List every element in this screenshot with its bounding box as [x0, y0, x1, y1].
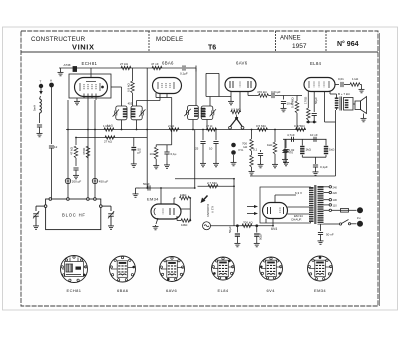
IFT1 tank2 loop [131, 106, 142, 120]
OT primary coil [335, 98, 339, 109]
svg-text:0,1µF: 0,1µF [180, 72, 188, 76]
small coupling cap on rail [73, 67, 77, 72]
svg-text:1957: 1957 [292, 43, 307, 50]
resistor 700k tall [251, 130, 253, 140]
primary winding [309, 187, 314, 222]
tuner box [46, 199, 101, 230]
bottom tie line [302, 156, 326, 158]
svg-text:470 kΩ: 470 kΩ [257, 90, 267, 94]
choke b [325, 139, 327, 145]
resistor 1M on bus [104, 128, 114, 132]
tube socket 6V4 [260, 257, 283, 280]
svg-text:1MΩ: 1MΩ [181, 223, 188, 227]
resistor 27k on AGC [105, 136, 115, 140]
screen wire to B+ [324, 91, 326, 122]
wire x95 down [94, 100, 96, 198]
svg-text:0,1: 0,1 [253, 148, 258, 152]
vertical x194.75 [194, 130, 196, 189]
grid return line [175, 178, 234, 180]
svg-text:EM34: EM34 [314, 288, 326, 293]
svg-text:ECH81: ECH81 [67, 288, 82, 293]
tube 6AV6 envelope [225, 78, 256, 92]
ECH81 electrodes [80, 82, 104, 92]
tube 6BA6 envelope [153, 78, 182, 94]
svg-text:1 MΩ: 1 MΩ [103, 124, 111, 128]
resistor 700 filter [242, 224, 252, 228]
svg-text:50µF: 50µF [259, 233, 263, 240]
OT B+ drop [335, 110, 337, 176]
PU jack circles [232, 143, 236, 147]
resistor 47 on bus [207, 128, 217, 132]
right CV wire [102, 205, 111, 207]
svg-text:2 kΩ: 2 kΩ [168, 124, 175, 128]
6AV6 electrodes [230, 81, 251, 88]
AVC bus line [66, 129, 306, 131]
svg-text:0,5 MΩ: 0,5 MΩ [231, 108, 242, 112]
cap 0.1 to gnd [260, 150, 262, 152]
vertical x234 [233, 179, 235, 226]
svg-text:110: 110 [333, 203, 338, 207]
ground [37, 132, 43, 137]
IFT1 feed wires [121, 87, 123, 106]
IFT1 tank2 coil [131, 108, 135, 117]
OT secondary box [344, 98, 354, 111]
svg-text:6V4: 6V4 [267, 288, 276, 293]
resistor 27k top rail [121, 66, 131, 70]
6V4 anode wires [288, 206, 310, 208]
ground under box [76, 98, 78, 100]
terminal right [100, 205, 103, 208]
wire coil to cap [39, 113, 41, 123]
left CV [33, 211, 39, 218]
speaker ground [363, 114, 365, 118]
svg-text:0,47MΩ: 0,47MΩ [294, 124, 305, 128]
svg-text:1MΩ: 1MΩ [180, 193, 187, 197]
svg-text:µF: µF [138, 151, 142, 155]
EM34 electrodes [154, 208, 174, 215]
taps [324, 186, 330, 188]
svg-text:50 nF: 50 nF [326, 233, 334, 237]
cap 50nF inline [148, 185, 150, 190]
svg-text:50nF: 50nF [143, 182, 150, 186]
diode load wire [248, 95, 254, 97]
antenna coil L1 [40, 99, 42, 113]
resistor 1M top [174, 197, 176, 199]
svg-text:27 kΩ: 27 kΩ [120, 62, 129, 66]
svg-text:6,8 kΩ: 6,8 kΩ [127, 82, 131, 92]
svg-text:T: T [40, 80, 42, 84]
wire x147 rail to bus [146, 68, 148, 188]
svg-text:EL84: EL84 [218, 288, 229, 293]
AGC line y137 [76, 137, 147, 139]
tube ECH81 envelope [75, 78, 108, 97]
svg-text:700 kΩ: 700 kΩ [243, 221, 253, 225]
heater arrow a [247, 206, 255, 208]
AVC drop wire [206, 120, 208, 130]
svg-text:6BA6: 6BA6 [117, 288, 129, 293]
IFT1 tank1 trimmer [113, 109, 119, 116]
pot contact b [241, 126, 244, 129]
tube socket 6BA6 [110, 256, 136, 282]
cap 0.1 to gnd [315, 157, 317, 164]
filter line [234, 225, 273, 227]
IFT2 leads [192, 120, 194, 130]
svg-text:100: 100 [150, 152, 155, 156]
pot element [231, 110, 241, 114]
cap 10uF to gnd [215, 130, 217, 141]
svg-text:5mH: 5mH [33, 105, 37, 111]
svg-text:10 nF: 10 nF [310, 133, 318, 137]
plate lead to tone [335, 84, 339, 86]
svg-text:200 µF: 200 µF [72, 180, 82, 184]
svg-text:470: 470 [288, 151, 293, 155]
svg-text:220: 220 [333, 191, 338, 195]
EL84 electrodes [309, 81, 329, 88]
grid cap lead up [90, 68, 92, 78]
svg-text:6,3 V: 6,3 V [295, 191, 302, 195]
IFT2 coil a [194, 108, 198, 117]
tube EM34 envelope [151, 204, 181, 219]
svg-text:0,5 MΩ: 0,5 MΩ [256, 124, 267, 128]
junction bar [195, 66, 197, 72]
resistor 6.8k vertical [132, 68, 134, 81]
cathode cap [313, 92, 315, 113]
svg-text:0,1µF: 0,1µF [320, 165, 328, 169]
grid feed line [139, 187, 195, 189]
terminal A [50, 83, 54, 87]
left CV wire [36, 205, 44, 207]
tie vertical [189, 198, 191, 221]
fuse line [332, 209, 341, 211]
svg-text:240: 240 [333, 185, 338, 189]
secondary winding [318, 186, 324, 225]
6V4 cathode wire up [274, 195, 276, 203]
svg-text:1kΩ: 1kΩ [306, 148, 312, 152]
svg-text:170Ω: 170Ω [304, 96, 308, 104]
svg-text:470Ω: 470Ω [82, 147, 86, 155]
ecap 50uF drop [133, 138, 135, 147]
svg-text:27 kΩ: 27 kΩ [104, 140, 113, 144]
diode ground [230, 92, 232, 101]
svg-text:ANNEE: ANNEE [280, 36, 301, 42]
svg-text:50µF: 50µF [314, 97, 318, 104]
6V4 cathode drop [272, 219, 274, 226]
resistor 0.5M on bus [258, 128, 268, 132]
6BA6 pin leads [155, 93, 157, 98]
wire pin to tuner x68 [67, 100, 69, 198]
resistor 0.47M on bus [296, 128, 306, 132]
svg-text:N° 964: N° 964 [337, 40, 359, 48]
tube 6V4 envelope [263, 203, 288, 219]
svg-text:A: A [50, 79, 52, 83]
heater arrow b [247, 213, 255, 215]
tube pin leads [83, 94, 85, 99]
pot contact a [229, 126, 232, 129]
mains terminal b [357, 221, 362, 226]
cathode resistor [307, 92, 309, 109]
cap under 47k [73, 168, 78, 170]
schematic border frame [21, 31, 378, 306]
dial lamp [203, 222, 235, 230]
gnd left with cap [284, 139, 286, 150]
ground stub on rail [60, 68, 62, 71]
svg-text:1kΩ: 1kΩ [329, 148, 335, 152]
svg-text:25: 25 [195, 147, 199, 151]
IFT3 loop [201, 106, 213, 120]
wire A down to tuner [51, 87, 53, 144]
oscillator box around ECH81 [69, 74, 111, 98]
svg-text:12: 12 [54, 145, 58, 149]
svg-text:T6: T6 [208, 45, 216, 52]
wire down to IFT2 [195, 68, 197, 106]
cathode tie [306, 121, 317, 123]
svg-text:B + 7 kΩ: B + 7 kΩ [338, 92, 350, 96]
resistor 1M bottom [181, 219, 191, 223]
svg-text:10: 10 [209, 147, 213, 151]
svg-text:0,1µ: 0,1µ [171, 152, 177, 156]
EL84 grid line [297, 95, 302, 97]
heater wiring box [260, 187, 311, 223]
target leads right [181, 208, 190, 210]
tube socket EL84 [212, 257, 235, 280]
dial lamp arrow [201, 198, 206, 204]
svg-text:MODELE: MODELE [156, 36, 183, 43]
detector loop wires [205, 73, 207, 96]
pot wiper arms [230, 119, 236, 127]
grid leak [296, 96, 298, 102]
plate lead right [111, 86, 122, 88]
resistor 470 vertical on x88 [86, 146, 90, 158]
cap 0.1 branch [166, 145, 168, 152]
mains terminal a [357, 208, 362, 213]
tube socket EM34 [308, 256, 333, 281]
feed line y139 [283, 138, 327, 140]
cap 10nF [314, 137, 316, 142]
choke a [301, 139, 303, 145]
cap 10nF down [283, 96, 285, 100]
capacitor C-ant [37, 125, 42, 127]
IFT2 loop [188, 106, 199, 120]
cathode gnd [156, 218, 158, 224]
svg-text:AT46: AT46 [63, 63, 71, 67]
svg-text:47 kΩ: 47 kΩ [70, 146, 74, 155]
svg-text:Fu: Fu [357, 216, 361, 220]
svg-text:CADRAN: CADRAN [206, 204, 210, 217]
cap 0.02 to gnd [285, 140, 287, 149]
svg-text:2,7 MΩ: 2,7 MΩ [207, 181, 218, 185]
svg-text:BLOC HF: BLOC HF [62, 213, 86, 218]
svg-text:1 kΩ: 1 kΩ [352, 77, 359, 81]
filter cap a [236, 226, 238, 233]
IFT1 tank1 loop [116, 106, 127, 120]
resistor 470k [259, 94, 269, 98]
6BA6 grid wire [136, 101, 138, 107]
gnd left [138, 187, 140, 190]
svg-text:ECH81: ECH81 [82, 61, 98, 66]
resistor 100 [155, 145, 157, 147]
plate to OT [329, 91, 331, 94]
IFT1 tank1 coil [123, 108, 127, 117]
line 2.7M [198, 185, 235, 187]
svg-text:6AV6: 6AV6 [166, 288, 177, 293]
tube socket 6AV6 [160, 257, 185, 282]
svg-text:0,01: 0,01 [338, 77, 344, 81]
series padder cap [49, 146, 54, 148]
ground arrow under T [40, 88, 42, 93]
IFT2 coil b [201, 108, 205, 117]
core lines [314, 185, 316, 224]
top rail left [59, 67, 182, 69]
svg-text:VINIX: VINIX [72, 43, 95, 52]
svg-text:EM34: EM34 [147, 197, 159, 202]
coupling cap 0.01 [269, 95, 272, 97]
svg-text:0,47MΩ: 0,47MΩ [291, 97, 295, 108]
resistor 47k vertical [75, 138, 77, 146]
svg-text:450 µF: 450 µF [99, 180, 109, 184]
filter cap b [256, 226, 258, 233]
svg-text:50µF: 50µF [228, 226, 232, 233]
terminals top [49, 198, 52, 201]
speaker body [355, 101, 361, 110]
6BA6 electrodes [158, 82, 174, 89]
svg-text:EL84: EL84 [310, 61, 322, 66]
svg-text:1kΩ: 1kΩ [267, 143, 273, 147]
cap 25uF to gnd [202, 130, 204, 141]
svg-text:47 nF: 47 nF [151, 62, 159, 66]
wire x88 down [87, 100, 89, 198]
svg-text:0,01µF: 0,01µF [271, 90, 281, 94]
svg-text:130: 130 [333, 198, 338, 202]
switch [324, 223, 340, 225]
svg-text:6AV6: 6AV6 [236, 61, 248, 66]
resistor 1k vertical [274, 130, 276, 143]
header table [21, 31, 378, 52]
speaker cone [361, 97, 367, 114]
6V4 electrodes [268, 207, 284, 214]
right CV [108, 211, 114, 218]
cap 4.7nF [292, 137, 294, 142]
svg-text:CHAUF.: CHAUF. [291, 218, 302, 222]
tube EL84 envelope [304, 78, 335, 92]
electrolytic on x95 [92, 178, 97, 183]
branch line [156, 144, 172, 146]
IFT2 trimmer [184, 109, 190, 116]
heater line [265, 219, 267, 224]
svg-text:6,3 V: 6,3 V [211, 206, 215, 213]
primary bottom cap [320, 225, 322, 232]
OT core [339, 97, 341, 111]
tube socket ECH81 [61, 256, 88, 283]
IFT1 tank2 trimmer [139, 109, 145, 116]
svg-text:EM 34: EM 34 [294, 214, 303, 218]
electrolytic on x68 [65, 178, 70, 183]
6AV6 pin leads [239, 92, 241, 113]
resistor 47k top rail [152, 66, 162, 70]
svg-text:6V4: 6V4 [271, 227, 277, 231]
resistor 2k on bus [169, 128, 179, 132]
svg-text:6BA6: 6BA6 [162, 61, 174, 66]
svg-text:4,7nF: 4,7nF [287, 133, 295, 137]
grid lead [160, 188, 162, 205]
coupling cap after 6BA6 [183, 65, 185, 70]
terminal left [44, 205, 47, 208]
terminal T [39, 84, 43, 88]
svg-text:455: 455 [128, 102, 133, 106]
